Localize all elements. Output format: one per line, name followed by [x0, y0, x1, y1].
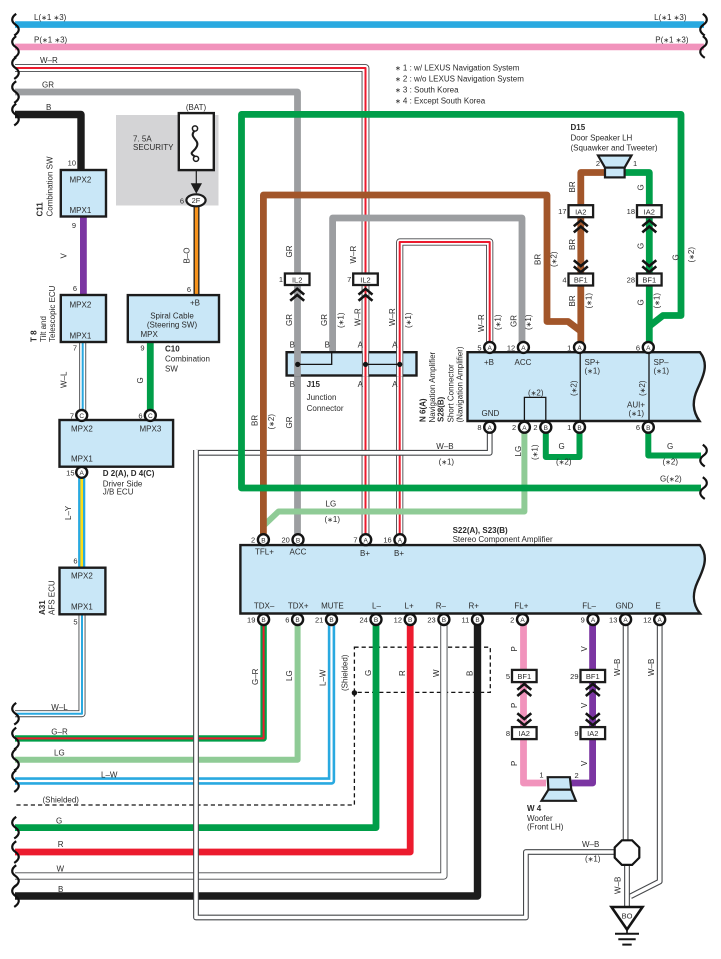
- svg-text:P: P: [510, 761, 519, 766]
- svg-text:TDX–: TDX–: [254, 602, 275, 611]
- stereo pin 19(B) TDX-: [258, 614, 269, 625]
- stereo pin 20(B) ACC: [293, 534, 304, 545]
- svg-text:17: 17: [558, 207, 566, 216]
- svg-text:LG: LG: [326, 499, 337, 508]
- svg-text:IA2: IA2: [519, 729, 530, 738]
- legend note *1..*4: [395, 64, 524, 106]
- svg-text:G: G: [56, 817, 62, 826]
- svg-text:C: C: [79, 413, 84, 420]
- stereo pin 24(B) L-: [371, 614, 382, 625]
- svg-text:W–R: W–R: [388, 308, 397, 326]
- svg-text:(∗1): (∗1): [404, 312, 413, 328]
- svg-text:MPX: MPX: [141, 330, 159, 339]
- svg-text:(Steering SW): (Steering SW): [147, 321, 198, 330]
- svg-text:B+: B+: [394, 549, 404, 558]
- svg-text:IA2: IA2: [644, 207, 655, 216]
- connector 9 IA2: [581, 727, 606, 739]
- svg-text:6: 6: [138, 411, 142, 420]
- connector 1 IL2: [285, 274, 310, 286]
- chevrons toward IL2(7): [359, 289, 373, 301]
- svg-text:Junction: Junction: [307, 393, 337, 402]
- svg-text:7: 7: [73, 344, 77, 353]
- driver side J/B ECU box D2(A) D4(C): [60, 420, 174, 467]
- stereo pin 7(A) B+: [360, 534, 371, 545]
- svg-text:L(∗1 ∗3): L(∗1 ∗3): [654, 13, 687, 22]
- svg-text:L–Y: L–Y: [64, 505, 73, 520]
- svg-text:24: 24: [359, 616, 367, 625]
- BO ground triangle: [612, 907, 643, 930]
- svg-text:6: 6: [187, 285, 191, 294]
- svg-text:IA2: IA2: [587, 729, 598, 738]
- svg-text:GND: GND: [616, 602, 634, 611]
- svg-text:BR: BR: [568, 295, 577, 306]
- svg-text:6: 6: [180, 196, 184, 205]
- chevrons toward IL2(1): [290, 289, 304, 301]
- wire W-B: stereo E 12(A) down, merge to ground lead: [631, 625, 660, 897]
- svg-text:(∗2): (∗2): [638, 380, 647, 396]
- svg-text:A: A: [358, 341, 364, 350]
- svg-text:V: V: [60, 253, 69, 259]
- chevrons toward IA2(8): [517, 713, 531, 725]
- stereo pin 2(A) FL+: [517, 614, 528, 625]
- svg-text:12: 12: [507, 343, 515, 352]
- svg-text:2: 2: [251, 536, 255, 545]
- wire W: stereo R- 23(B) down-left to edge: [15, 625, 444, 876]
- svg-text:MPX2: MPX2: [71, 425, 93, 434]
- svg-text:(∗1): (∗1): [337, 312, 346, 328]
- svg-text:L–: L–: [372, 602, 381, 611]
- svg-text:W–B: W–B: [582, 840, 599, 849]
- fuse rectangle (BAT): [179, 113, 214, 170]
- svg-text:(∗1): (∗1): [585, 855, 601, 864]
- svg-text:R: R: [398, 670, 407, 676]
- svg-text:ACC: ACC: [290, 548, 307, 557]
- svg-text:W: W: [57, 864, 65, 873]
- svg-text:8: 8: [506, 729, 510, 738]
- svg-text:(Shielded): (Shielded): [43, 796, 80, 805]
- svg-text:B: B: [374, 617, 378, 624]
- svg-text:7. 5A: 7. 5A: [133, 134, 152, 143]
- svg-text:BF1: BF1: [574, 276, 588, 285]
- svg-text:P: P: [510, 646, 519, 651]
- svg-text:LG: LG: [285, 670, 294, 681]
- svg-text:1: 1: [567, 423, 571, 432]
- wire W-L: T8 pin 7 to J/B ECU pin 7(C): [79, 342, 86, 411]
- svg-text:ACC: ACC: [515, 358, 532, 367]
- svg-text:(Navigation Amplifier): (Navigation Amplifier): [456, 346, 465, 422]
- svg-text:GND: GND: [482, 409, 500, 418]
- pin 15(A) circle: [76, 467, 87, 478]
- wire G (*2): nav amp AUI+ 6(B) right to edge: [648, 432, 701, 455]
- wire W-B: octagon to BO ground triangle: [624, 863, 630, 907]
- dashed shield drain to (Shielded) line: [15, 692, 354, 805]
- svg-text:∗ 1 : w/ LEXUS Navigation Syst: ∗ 1 : w/ LEXUS Navigation System: [395, 64, 520, 73]
- svg-text:B: B: [296, 537, 300, 544]
- svg-text:9: 9: [574, 729, 578, 738]
- svg-text:GR: GR: [285, 314, 294, 326]
- W4 woofer icon: [542, 777, 576, 801]
- svg-text:W–B: W–B: [436, 442, 453, 451]
- svg-text:MPX1: MPX1: [71, 603, 93, 612]
- svg-text:(∗1): (∗1): [524, 314, 533, 330]
- wire B-O: fuse 2F down to spiral cable +B pin 6: [194, 206, 200, 295]
- stereo pin 23(B) R-: [438, 614, 449, 625]
- wire L-W: stereo MUTE 21(B) down-left to edge: [15, 625, 332, 781]
- svg-text:Stereo Component Amplifier: Stereo Component Amplifier: [453, 535, 553, 544]
- nav amp pin 12(A) ACC: [518, 342, 529, 353]
- chevrons toward IA2(9): [586, 713, 600, 725]
- wire L-Y: J/B ECU pin 15(A) to AFS ECU pin 6: [78, 478, 85, 568]
- svg-text:B: B: [290, 341, 295, 350]
- svg-text:9: 9: [581, 616, 585, 625]
- svg-text:(∗2): (∗2): [663, 458, 679, 467]
- nav amp pin 8(A) GND: [484, 422, 495, 433]
- svg-text:A31: A31: [38, 600, 47, 615]
- svg-text:(∗1): (∗1): [531, 444, 540, 460]
- wire P: stereo FL+ 2(A) via BF1/IA2 to woofer pin 1: [524, 625, 547, 783]
- svg-text:G(∗2): G(∗2): [660, 475, 682, 484]
- svg-text:LG: LG: [54, 749, 65, 758]
- svg-text:+B: +B: [484, 358, 494, 367]
- wire W-B (*1): long return path over bottom wires to octagon: [196, 450, 616, 918]
- stereo pin 12(A) E: [654, 614, 665, 625]
- chevrons toward BF1(29): [586, 684, 600, 696]
- ground symbol: [615, 930, 639, 945]
- svg-text:∗ 3 : South Korea: ∗ 3 : South Korea: [395, 86, 459, 95]
- svg-text:MPX1: MPX1: [70, 332, 92, 341]
- svg-text:A: A: [358, 380, 364, 389]
- svg-text:W–R: W–R: [349, 246, 358, 264]
- svg-text:6: 6: [73, 284, 77, 293]
- svg-text:L+: L+: [405, 602, 414, 611]
- svg-text:1: 1: [567, 343, 571, 352]
- svg-text:6: 6: [73, 557, 77, 566]
- svg-text:(∗1): (∗1): [494, 314, 503, 330]
- wire P (pink, top bus): [15, 44, 704, 51]
- svg-text:V: V: [580, 760, 589, 766]
- svg-text:G: G: [136, 377, 145, 383]
- svg-text:B: B: [577, 425, 581, 432]
- svg-text:B: B: [408, 617, 412, 624]
- svg-text:GR: GR: [42, 80, 54, 89]
- svg-text:28: 28: [627, 275, 635, 284]
- stereo pin 12(B) L+: [405, 614, 416, 625]
- svg-text:V: V: [580, 702, 589, 708]
- svg-text:(Front LH): (Front LH): [527, 823, 564, 832]
- svg-text:(∗2): (∗2): [687, 247, 696, 263]
- svg-text:1: 1: [279, 275, 283, 284]
- svg-text:B: B: [261, 537, 265, 544]
- svg-text:12: 12: [643, 616, 651, 625]
- wire W-R through J15 (pin A) second: [396, 351, 403, 377]
- connector 18 IA2: [637, 205, 662, 217]
- svg-text:Connector: Connector: [307, 404, 344, 413]
- chevrons toward BF1(4): [574, 260, 588, 272]
- svg-text:MPX3: MPX3: [140, 425, 162, 434]
- svg-text:(∗2): (∗2): [550, 251, 559, 267]
- wire W-R (white/red): left bus to IL2(7), J15, stereo B+ 7(A): [15, 68, 366, 535]
- pin 6(C) circle: [145, 410, 156, 421]
- svg-text:A: A: [364, 537, 369, 544]
- connector 28 BF1: [637, 274, 662, 286]
- svg-text:SW: SW: [165, 365, 178, 374]
- svg-text:(∗2): (∗2): [267, 414, 276, 430]
- J15 internal bus A: [366, 363, 400, 365]
- svg-text:A: A: [521, 345, 526, 352]
- svg-text:2F: 2F: [192, 196, 201, 205]
- svg-text:MPX2: MPX2: [70, 176, 92, 185]
- svg-text:TDX+: TDX+: [288, 602, 309, 611]
- svg-text:G: G: [637, 243, 646, 249]
- svg-text:G: G: [672, 254, 681, 260]
- svg-text:B: B: [544, 425, 548, 432]
- svg-text:5: 5: [506, 672, 510, 681]
- wire B: stereo R+ 11(B) down-left to edge: [15, 625, 478, 896]
- wire LG (*1): nav amp 2(A) down, left, merge into TFL+ lead: [265, 432, 525, 524]
- svg-text:W: W: [432, 669, 441, 677]
- wire BR (*1): door speaker pin 2 via IA2/BF1 down to nav amp SP+ 1(A): [581, 173, 605, 344]
- svg-text:G: G: [559, 442, 565, 451]
- D15 door speaker LH icon: [598, 156, 632, 178]
- stereo component amplifier box S22(A)/S23(B): [240, 545, 704, 613]
- svg-text:(Squawker and Tweeter): (Squawker and Tweeter): [571, 144, 658, 153]
- left edge squiggles: [12, 14, 19, 907]
- svg-text:B: B: [261, 617, 265, 624]
- svg-text:6: 6: [636, 423, 640, 432]
- svg-text:B: B: [58, 885, 63, 894]
- connector 5 BF1: [512, 670, 537, 682]
- wire B (black): left bus to C11 pin 10: [15, 115, 81, 171]
- svg-text:Spiral Cable: Spiral Cable: [150, 312, 194, 321]
- wire W-R bridge: stereo B+ 16(A) up, over to nav amp +B 5(A): [400, 242, 490, 535]
- wire V (violet): C11 pin 9 to T8 pin 6: [80, 217, 87, 296]
- nav amp pin 5(A) +B: [484, 342, 495, 353]
- stereo pin 9(A) FL-: [588, 614, 599, 625]
- spiral cable (steering SW) box: [128, 295, 219, 342]
- svg-text:A: A: [398, 537, 403, 544]
- nav amp short connector notch S28(B): [524, 397, 545, 421]
- wire GR through J15: [294, 351, 301, 377]
- wire G (*1): door speaker pin 1 via IA2/BF1 down to nav amp SP- 6(A): [625, 173, 650, 344]
- nav amp pin 2(B): [540, 422, 551, 433]
- svg-text:Short Connector: Short Connector: [447, 364, 456, 423]
- svg-text:A: A: [623, 617, 628, 624]
- AFS ECU box A31: [60, 568, 106, 615]
- svg-text:7: 7: [70, 411, 74, 420]
- svg-text:8: 8: [477, 423, 481, 432]
- svg-text:2: 2: [533, 423, 537, 432]
- svg-text:R+: R+: [469, 602, 480, 611]
- svg-text:13: 13: [609, 616, 617, 625]
- svg-text:Door Speaker LH: Door Speaker LH: [571, 134, 633, 143]
- svg-text:(∗1): (∗1): [439, 457, 455, 466]
- dashed shield box around G/R/W/B amp wires: [354, 647, 490, 692]
- svg-text:A: A: [520, 617, 525, 624]
- svg-text:B: B: [290, 380, 295, 389]
- svg-text:V: V: [580, 646, 589, 652]
- svg-text:(BAT): (BAT): [186, 103, 207, 112]
- svg-text:W 4: W 4: [527, 804, 542, 813]
- svg-text:R–: R–: [436, 602, 447, 611]
- svg-text:IL2: IL2: [360, 275, 370, 284]
- chevrons toward BF1(28): [642, 260, 656, 272]
- svg-text:20: 20: [281, 536, 289, 545]
- svg-text:G: G: [364, 670, 373, 676]
- svg-text:G–R: G–R: [51, 727, 68, 736]
- svg-text:1: 1: [539, 771, 543, 780]
- navigation amplifier box N6(A)/S28(B): [468, 352, 705, 421]
- svg-text:TFL+: TFL+: [255, 548, 274, 557]
- svg-text:7: 7: [347, 275, 351, 284]
- stereo pin 21(B) MUTE: [326, 614, 337, 625]
- svg-text:A: A: [80, 470, 85, 477]
- svg-text:D 2(A), D 4(C): D 2(A), D 4(C): [103, 469, 155, 478]
- nav amp pin 1(A) SP+: [574, 342, 585, 353]
- svg-text:P(∗1 ∗3): P(∗1 ∗3): [34, 35, 68, 44]
- svg-text:(∗1): (∗1): [585, 293, 594, 309]
- svg-text:P(∗1 ∗3): P(∗1 ∗3): [655, 35, 689, 44]
- svg-text:W–B: W–B: [647, 659, 656, 676]
- wire W-L: AFS ECU pin 5 down, left to edge: [15, 614, 82, 713]
- svg-text:B+: B+: [360, 549, 370, 558]
- svg-text:S22(A), S23(B): S22(A), S23(B): [453, 526, 508, 535]
- svg-text:D15: D15: [571, 123, 586, 132]
- svg-text:2: 2: [512, 423, 516, 432]
- svg-text:W–R: W–R: [354, 308, 363, 326]
- svg-text:Combination: Combination: [165, 355, 210, 364]
- svg-text:6: 6: [285, 616, 289, 625]
- svg-text:2: 2: [510, 616, 514, 625]
- J15 internal bus B: [298, 352, 332, 364]
- svg-text:(∗1): (∗1): [629, 409, 645, 418]
- svg-text:A: A: [577, 345, 582, 352]
- svg-text:GR: GR: [510, 315, 519, 327]
- svg-text:A: A: [522, 425, 527, 432]
- svg-text:Tilt and: Tilt and: [39, 316, 48, 342]
- svg-text:A: A: [591, 617, 596, 624]
- svg-text:6: 6: [636, 343, 640, 352]
- svg-text:B: B: [325, 341, 330, 350]
- svg-text:A: A: [392, 341, 398, 350]
- svg-text:FL–: FL–: [582, 602, 596, 611]
- nav amp pin 6(B) AUI+: [643, 422, 654, 433]
- svg-text:J15: J15: [307, 380, 321, 389]
- svg-text:(∗1): (∗1): [325, 515, 341, 524]
- svg-text:B: B: [46, 103, 51, 112]
- svg-text:B: B: [329, 617, 333, 624]
- svg-text:(∗2): (∗2): [528, 389, 544, 398]
- wire G: spiral cable pin 9 to J/B ECU pin 6(C): [147, 342, 154, 411]
- svg-text:BR: BR: [534, 254, 543, 265]
- svg-text:A: A: [392, 380, 398, 389]
- svg-text:29: 29: [570, 672, 578, 681]
- svg-text:BR: BR: [251, 415, 260, 426]
- svg-text:LG: LG: [514, 446, 523, 457]
- svg-text:+B: +B: [190, 299, 200, 308]
- svg-text:L–W: L–W: [319, 669, 328, 686]
- connector 17 IA2: [569, 205, 594, 217]
- stereo pin 6(B) TDX+: [292, 614, 303, 625]
- svg-text:(∗1): (∗1): [653, 293, 662, 309]
- svg-text:G–R: G–R: [251, 668, 260, 685]
- svg-text:B–O: B–O: [183, 247, 192, 263]
- stereo pin 11(B) R+: [472, 614, 483, 625]
- svg-text:B: B: [295, 617, 299, 624]
- svg-text:1: 1: [633, 159, 637, 168]
- svg-text:BF1: BF1: [586, 672, 600, 681]
- svg-text:Telescopic ECU: Telescopic ECU: [48, 285, 57, 342]
- nav amp internal divider (*2) right: [648, 352, 650, 421]
- svg-text:MUTE: MUTE: [321, 602, 344, 611]
- nav amp internal divider (*2) left: [579, 352, 581, 421]
- svg-text:A: A: [488, 345, 493, 352]
- ground joint octagon: [615, 840, 640, 865]
- wire LG: stereo TDX+ 6(B) down-left to edge: [15, 625, 298, 760]
- wire GR (*1) bridge: J15 B up and over to nav amp ACC 12(A): [333, 218, 522, 352]
- nav amp pin 2(A): [519, 422, 530, 433]
- svg-text:BF1: BF1: [517, 672, 531, 681]
- svg-text:C11: C11: [36, 202, 45, 217]
- svg-text:C: C: [148, 413, 153, 420]
- svg-text:GR: GR: [320, 314, 329, 326]
- nav amp pin 6(A) SP-: [643, 342, 654, 353]
- svg-text:(∗1): (∗1): [654, 366, 670, 375]
- connector 29 BF1: [581, 670, 606, 682]
- brown loop BR (*2): stereo TFL+ 2(B) up, across, down to SP+ merge: [263, 195, 580, 535]
- svg-text:10: 10: [68, 159, 76, 168]
- wire L (blue, top bus): [15, 21, 704, 28]
- pin 7(C) circle: [76, 410, 87, 421]
- svg-text:18: 18: [627, 207, 635, 216]
- svg-text:(∗2): (∗2): [570, 380, 579, 396]
- wire V: stereo FL- 9(A) via BF1/IA2 to woofer pin 2: [572, 625, 593, 783]
- svg-text:R: R: [58, 840, 64, 849]
- svg-text:(∗2): (∗2): [556, 458, 572, 467]
- svg-text:GR: GR: [285, 245, 294, 257]
- svg-text:A: A: [488, 425, 493, 432]
- wire GR (gray): left bus down through IL2(1), J15 to stereo ACC 20(B): [15, 92, 298, 535]
- svg-text:9: 9: [72, 221, 76, 230]
- svg-text:19: 19: [247, 616, 255, 625]
- svg-text:IA2: IA2: [575, 207, 586, 216]
- connector 7 IL2: [353, 274, 378, 286]
- shield junction dot: [352, 690, 357, 695]
- svg-text:MPX2: MPX2: [71, 572, 93, 581]
- svg-text:7: 7: [353, 536, 357, 545]
- svg-text:23: 23: [427, 616, 435, 625]
- svg-text:MPX1: MPX1: [71, 455, 93, 464]
- svg-text:SECURITY: SECURITY: [133, 143, 174, 152]
- svg-text:L(∗1 ∗3): L(∗1 ∗3): [34, 13, 67, 22]
- J15 junction connector box: [287, 352, 417, 375]
- svg-text:4: 4: [562, 275, 566, 284]
- svg-text:2: 2: [596, 159, 600, 168]
- svg-text:T 8: T 8: [30, 330, 39, 342]
- svg-text:21: 21: [315, 616, 323, 625]
- svg-text:W–B: W–B: [614, 877, 623, 894]
- svg-text:A: A: [646, 345, 651, 352]
- wire W-B: stereo GND 13(A) down to octagon joint: [623, 625, 629, 841]
- wire W-B (*1): nav amp GND 8(A) down-left to long vertical: [196, 432, 490, 452]
- svg-text:∗ 2 : w/o LEXUS Navigation Sys: ∗ 2 : w/o LEXUS Navigation System: [395, 75, 524, 84]
- wire G (*2) jumper: nav amp 2(B) to 1(B): [546, 432, 580, 457]
- fuse block background (7.5A SECURITY): [116, 115, 219, 206]
- connector 8 IA2: [512, 727, 537, 739]
- svg-text:W–B: W–B: [613, 659, 622, 676]
- svg-text:W–L: W–L: [51, 703, 68, 712]
- svg-text:J/B ECU: J/B ECU: [103, 488, 134, 497]
- svg-text:IL2: IL2: [292, 275, 302, 284]
